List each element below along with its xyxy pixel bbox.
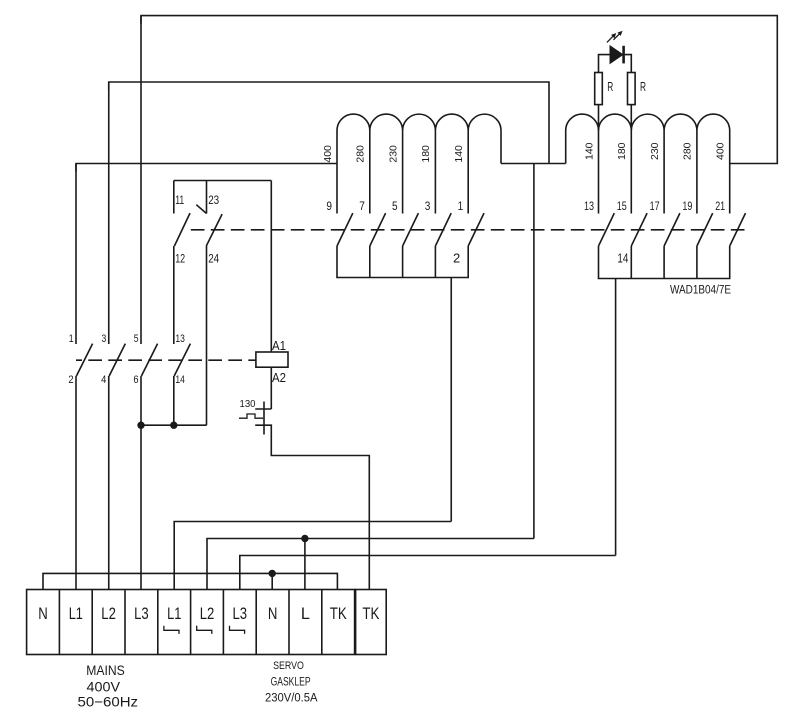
winding right bank start stub bbox=[565, 131, 567, 164]
pin label A1 bbox=[272, 339, 286, 353]
mechanical link dashed lower bbox=[76, 359, 256, 361]
pin label 1 bbox=[69, 333, 74, 345]
pin label 17 bbox=[650, 199, 660, 213]
switch lower lead 17 bbox=[663, 246, 665, 279]
wire coil A2 down bbox=[270, 367, 272, 409]
terminal hook 7 bbox=[230, 626, 245, 634]
svg-text:19: 19 bbox=[682, 199, 692, 213]
wire contact 24 lower bbox=[206, 246, 208, 425]
wire L2 bus top bbox=[109, 82, 549, 164]
caption GASKLEP bbox=[271, 676, 311, 688]
switch lower lead 9 bbox=[336, 246, 338, 278]
pin label 12 bbox=[175, 252, 185, 266]
wire LED anode bbox=[599, 55, 611, 73]
svg-text:L: L bbox=[301, 604, 310, 623]
svg-text:1: 1 bbox=[458, 199, 464, 213]
part number WAD1B04/7E bbox=[670, 285, 731, 297]
svg-text:5: 5 bbox=[134, 333, 139, 345]
switch blade 9 bbox=[337, 213, 353, 246]
terminal dividers bbox=[59, 590, 321, 655]
svg-text:2: 2 bbox=[68, 374, 73, 386]
wire mains L2 riser bbox=[108, 82, 110, 344]
coil K1 box bbox=[256, 352, 288, 367]
pin label 21 bbox=[715, 199, 725, 213]
pole 13-14 blade bbox=[174, 344, 190, 376]
junction servo L bbox=[302, 535, 308, 541]
switch lower lead 19 bbox=[696, 246, 698, 279]
value label 180 left bank bbox=[420, 145, 432, 163]
contact 11-12 upper lead bbox=[173, 181, 175, 214]
pin label A2 bbox=[272, 371, 286, 385]
value label 400 right bank bbox=[715, 142, 727, 160]
svg-text:400: 400 bbox=[322, 145, 334, 163]
value label 230 left bank bbox=[387, 145, 399, 163]
wire net 2 to servo L1 bbox=[174, 522, 451, 590]
wire R2 to tap 180 bbox=[630, 105, 632, 131]
terminal TK2 box bbox=[356, 590, 387, 655]
contact 23-24 blade bbox=[206, 214, 222, 246]
thermal switch lower lead bbox=[255, 425, 369, 589]
pin label 19 bbox=[682, 199, 692, 213]
tap leg 230 left bank bbox=[402, 131, 404, 214]
svg-text:TK: TK bbox=[362, 604, 380, 623]
terminal L1 label 5 bbox=[167, 604, 181, 623]
pin label 3 bbox=[102, 333, 107, 345]
tap leg 140 left bank bbox=[467, 131, 469, 214]
switch blade 1 bbox=[468, 213, 484, 246]
value label 400 left bank bbox=[322, 145, 334, 163]
pin label 5 bbox=[392, 199, 398, 213]
tap leg 180 right bank bbox=[630, 131, 632, 214]
svg-text:5: 5 bbox=[392, 199, 398, 213]
switch lower lead 15 bbox=[630, 246, 632, 279]
tap leg 230 right bank bbox=[663, 131, 665, 214]
svg-text:L1: L1 bbox=[69, 604, 83, 623]
wire mains L3 riser bbox=[140, 16, 142, 344]
svg-text:130: 130 bbox=[240, 398, 256, 410]
LED cathode bar bbox=[622, 46, 625, 64]
wire net 2 riser bbox=[450, 278, 452, 522]
pin label 14 bbox=[617, 251, 628, 266]
pin label 13 pole bbox=[175, 333, 185, 345]
mechanical link dashed upper bbox=[191, 229, 749, 231]
value label 180 right bank bbox=[616, 142, 628, 160]
contact 23-24 upper lead bbox=[206, 181, 208, 214]
caption MAINS bbox=[86, 662, 125, 678]
wire LED cathode bbox=[625, 55, 632, 73]
pin label 24 bbox=[208, 252, 219, 266]
svg-text:SERVO: SERVO bbox=[273, 660, 304, 672]
switch lower lead 7 bbox=[369, 246, 371, 278]
thermal sensor link bbox=[239, 414, 263, 418]
svg-text:140: 140 bbox=[453, 145, 465, 163]
terminal N label 1 bbox=[38, 604, 48, 623]
resistor R1 bbox=[595, 73, 603, 105]
wire winding-centre to servo L2 bbox=[207, 539, 534, 590]
terminal N label 8 bbox=[268, 604, 278, 623]
caption SERVO bbox=[273, 660, 304, 672]
tap leg 280 left bank bbox=[369, 131, 371, 214]
svg-text:L3: L3 bbox=[134, 604, 149, 623]
wire R1 to tap 140 bbox=[598, 105, 600, 131]
wire pole 14 lower bbox=[173, 376, 175, 425]
svg-text:WAD1B04/7E: WAD1B04/7E bbox=[670, 285, 731, 297]
wire jog between banks bbox=[501, 163, 566, 165]
switch blade 21 bbox=[730, 213, 746, 246]
contact 11-12 blade bbox=[174, 213, 190, 246]
svg-text:17: 17 bbox=[650, 199, 660, 213]
pin label 7 bbox=[359, 199, 365, 213]
svg-text:180: 180 bbox=[616, 142, 628, 160]
svg-text:280: 280 bbox=[355, 145, 367, 163]
svg-text:14: 14 bbox=[175, 374, 185, 386]
LED D1 bbox=[610, 46, 623, 64]
contact 23-24 NC mark bbox=[196, 205, 206, 214]
switch lower lead 1 bbox=[467, 246, 469, 278]
winding left bank end stub bbox=[500, 131, 502, 164]
caption 400V bbox=[87, 678, 121, 694]
svg-text:23: 23 bbox=[208, 193, 219, 207]
terminal TK label 10 bbox=[330, 604, 348, 623]
svg-text:N: N bbox=[268, 604, 278, 623]
switch blade 19 bbox=[697, 213, 713, 246]
pin label 2 bbox=[453, 251, 460, 266]
svg-text:L2: L2 bbox=[101, 604, 116, 623]
svg-text:L3: L3 bbox=[233, 604, 248, 623]
wire aux top bar bbox=[174, 180, 271, 182]
svg-text:13: 13 bbox=[175, 333, 185, 345]
switch lower lead 3 bbox=[434, 246, 436, 278]
value label 230 right bank bbox=[649, 142, 661, 160]
svg-text:400V: 400V bbox=[87, 678, 121, 694]
svg-text:280: 280 bbox=[682, 142, 694, 160]
svg-text:230: 230 bbox=[387, 145, 399, 163]
svg-text:12: 12 bbox=[175, 252, 185, 266]
wire pole 6 lower bbox=[140, 376, 142, 590]
wire net pole6-pole14-24 bbox=[141, 424, 207, 426]
switch blade 15 bbox=[631, 213, 647, 246]
svg-text:180: 180 bbox=[420, 145, 432, 163]
pin label 23 bbox=[208, 193, 219, 207]
caption 50-60Hz bbox=[78, 694, 139, 710]
pin label 9 bbox=[326, 199, 332, 213]
wire winding-centre riser top bbox=[533, 164, 535, 539]
terminal L3 label 7 bbox=[233, 604, 248, 623]
terminal hook 5 bbox=[164, 626, 179, 634]
tap leg 400 left bank bbox=[336, 131, 338, 214]
wire aux bar to coil A1 bbox=[270, 181, 272, 353]
LED arrow 1 bbox=[607, 34, 616, 43]
pole 3-4 blade bbox=[109, 344, 125, 376]
wire mains L1 riser bbox=[75, 164, 77, 345]
thermal switch upper lead bbox=[255, 408, 271, 410]
switch lower lead 13 bbox=[598, 246, 600, 279]
svg-text:9: 9 bbox=[326, 199, 332, 213]
value label 140 left bank bbox=[453, 145, 465, 163]
value label R1 bbox=[607, 79, 613, 94]
tap leg 400 right bank bbox=[729, 131, 731, 214]
svg-text:A2: A2 bbox=[272, 371, 286, 385]
terminal strip body bbox=[27, 590, 355, 655]
svg-text:N: N bbox=[38, 604, 48, 623]
svg-text:3: 3 bbox=[102, 333, 107, 345]
tap leg 280 right bank bbox=[696, 131, 698, 214]
left bank common bar bbox=[336, 277, 469, 279]
svg-text:3: 3 bbox=[425, 199, 431, 213]
thermal switch blade bbox=[263, 402, 265, 435]
svg-text:24: 24 bbox=[208, 252, 219, 266]
svg-text:230V/0.5A: 230V/0.5A bbox=[265, 693, 318, 705]
pin label 11 bbox=[175, 193, 184, 207]
value label 130 bbox=[240, 398, 256, 410]
resistor R2 bbox=[628, 73, 636, 105]
svg-text:400: 400 bbox=[715, 142, 727, 160]
svg-text:MAINS: MAINS bbox=[86, 662, 125, 678]
wire L1 bus to tap 400 bbox=[76, 164, 337, 172]
winding left bank arcs bbox=[337, 114, 501, 130]
wire neutral bus bbox=[43, 573, 337, 589]
junction pole 14 bbox=[171, 422, 177, 428]
svg-text:11: 11 bbox=[175, 193, 184, 207]
svg-text:1: 1 bbox=[69, 333, 74, 345]
wire L3 top bus bbox=[141, 16, 777, 164]
svg-text:GASKLEP: GASKLEP bbox=[271, 676, 311, 688]
svg-text:L1: L1 bbox=[167, 604, 181, 623]
tap leg 180 left bank bbox=[434, 131, 436, 214]
svg-text:TK: TK bbox=[330, 604, 348, 623]
terminal L2 label 3 bbox=[101, 604, 116, 623]
pin label 3 bbox=[425, 199, 431, 213]
svg-text:140: 140 bbox=[583, 142, 595, 160]
svg-text:6: 6 bbox=[133, 374, 138, 386]
switch blade 13 bbox=[599, 213, 615, 246]
switch blade 5 bbox=[403, 213, 419, 246]
junction pole 6 bbox=[138, 422, 144, 428]
wire servo L drop bbox=[304, 539, 306, 590]
terminal TK2 label bbox=[362, 604, 380, 623]
pin label 13 bbox=[584, 199, 594, 213]
svg-text:7: 7 bbox=[359, 199, 365, 213]
svg-text:L2: L2 bbox=[200, 604, 215, 623]
wire net 14 riser bbox=[615, 279, 617, 556]
svg-text:A1: A1 bbox=[272, 339, 286, 353]
tap leg 140 right bank bbox=[598, 131, 600, 214]
switch blade 17 bbox=[664, 213, 680, 246]
terminal hook 6 bbox=[197, 626, 212, 634]
wire pole 4 lower bbox=[108, 376, 110, 590]
pin label 6 bbox=[133, 374, 138, 386]
switch lower lead 5 bbox=[402, 246, 404, 278]
pin label 1 bbox=[458, 199, 464, 213]
terminal L label 9 bbox=[301, 604, 310, 623]
pin label 2 bbox=[68, 374, 73, 386]
wire contact 12 to pole 13 bbox=[173, 246, 175, 344]
svg-text:15: 15 bbox=[617, 199, 627, 213]
pin label 4 bbox=[101, 374, 106, 386]
value label 280 right bank bbox=[682, 142, 694, 160]
svg-text:4: 4 bbox=[101, 374, 106, 386]
LED arrow 2 bbox=[614, 32, 622, 40]
terminal L3 label 4 bbox=[134, 604, 149, 623]
wire servo N drop bbox=[271, 573, 273, 589]
value label 280 left bank bbox=[355, 145, 367, 163]
wire net 14 to servo L3 bbox=[240, 556, 616, 590]
caption 230V/0.5A bbox=[265, 693, 318, 705]
pole 1-2 blade bbox=[76, 344, 92, 376]
switch lower lead 21 bbox=[729, 246, 731, 279]
svg-text:2: 2 bbox=[453, 251, 460, 266]
winding right bank arcs bbox=[566, 114, 730, 130]
svg-text:13: 13 bbox=[584, 199, 594, 213]
value label R2 bbox=[640, 79, 646, 94]
pin label 14 pole bbox=[175, 374, 185, 386]
switch blade 3 bbox=[435, 213, 451, 246]
svg-text:21: 21 bbox=[715, 199, 725, 213]
svg-text:R: R bbox=[640, 79, 646, 94]
pin label 5 bbox=[134, 333, 139, 345]
svg-text:230: 230 bbox=[649, 142, 661, 160]
svg-text:14: 14 bbox=[617, 251, 628, 266]
junction servo N bbox=[269, 570, 275, 576]
switch blade 7 bbox=[370, 213, 386, 246]
wire pole 2 lower bbox=[75, 376, 77, 590]
value label 140 right bank bbox=[583, 142, 595, 160]
terminal L2 label 6 bbox=[200, 604, 215, 623]
pole 5-6 blade bbox=[141, 344, 157, 376]
right bank common bar bbox=[598, 278, 731, 280]
terminal L1 label 2 bbox=[69, 604, 83, 623]
pin label 15 bbox=[617, 199, 627, 213]
svg-text:R: R bbox=[607, 79, 613, 94]
svg-text:50−60Hz: 50−60Hz bbox=[78, 694, 139, 710]
